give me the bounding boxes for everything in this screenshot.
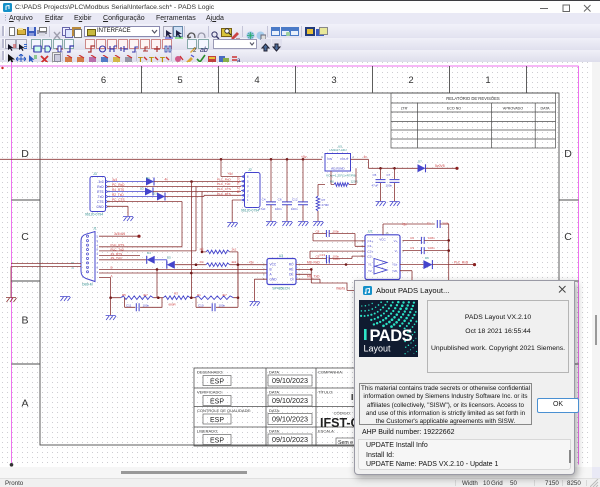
svg-text:C1-: C1- [368, 244, 373, 248]
svg-text:3v3/4v5: 3v3/4v5 [114, 232, 125, 236]
horizontal scrollbar [0, 467, 592, 478]
svg-text:120R: 120R [351, 180, 359, 184]
wire Y2b down [400, 271, 412, 280]
capacitor C6 [275, 159, 292, 221]
svg-text:100n: 100n [428, 246, 435, 250]
wire +5v rail [0, 158, 322, 161]
svg-text:VERIFICADO:: VERIFICADO: [197, 390, 223, 395]
svg-text:C7: C7 [387, 173, 391, 177]
svg-text:CTS: CTS [97, 200, 103, 204]
svg-text:100n: 100n [143, 303, 150, 307]
toolbar row 3 [0, 50, 600, 63]
diode D1 [146, 176, 154, 186]
diode D6 [423, 256, 432, 269]
svg-text:ESP: ESP [210, 378, 224, 385]
svg-text:LM1117-ADJ: LM1117-ADJ [329, 148, 347, 152]
svg-text:C8: C8 [316, 230, 320, 234]
svg-text:R5: R5 [122, 293, 126, 297]
wire DB9 to D4 [99, 259, 147, 261]
svg-text:C5: C5 [373, 173, 377, 177]
svg-text:5v0V5: 5v0V5 [435, 164, 445, 168]
svg-text:DATA: DATA [540, 107, 550, 111]
svg-text:5: 5 [177, 75, 182, 86]
svg-text:96120-0794: 96120-0794 [85, 213, 103, 217]
diode D7 [418, 160, 426, 173]
svg-text:R6: R6 [330, 180, 334, 184]
svg-text:1: 1 [485, 75, 490, 86]
svg-text:C2-: C2- [368, 254, 373, 258]
wire DB9 TxD row [99, 250, 196, 252]
transceiver U3 SP485ECN [263, 254, 300, 290]
capacitor CB flying [310, 251, 365, 262]
svg-text:C: C [21, 231, 29, 243]
svg-text:100n: 100n [428, 236, 435, 240]
svg-text:100n: 100n [275, 207, 282, 211]
resistor R6 [330, 180, 359, 187]
svg-text:PLC_TxD: PLC_TxD [111, 247, 125, 251]
wire R2 ends [201, 251, 238, 298]
svg-text:D7: D7 [418, 160, 422, 164]
wire J2 pin stubs [241, 177, 244, 201]
capacitor C3 [403, 246, 451, 254]
svg-text:DATA:: DATA: [269, 390, 280, 395]
wire DB9 RTS row [99, 246, 182, 248]
svg-text:4: 4 [254, 75, 259, 86]
svg-text:R3: R3 [174, 292, 178, 296]
svg-text:J2: J2 [248, 168, 252, 172]
wire R4 right to +5v [230, 263, 267, 266]
diode D3 [153, 192, 165, 201]
window top edge [0, 0, 600, 2]
version group box [427, 300, 569, 373]
svg-text:DATA:: DATA: [269, 370, 280, 375]
ground R7 [313, 222, 324, 227]
ground bias [106, 316, 117, 321]
svg-text:RxD: RxD [97, 185, 104, 189]
capacitor C5 [372, 168, 386, 201]
svg-text:ESP: ESP [210, 437, 224, 444]
svg-text:D: D [21, 148, 29, 160]
svg-text:C11: C11 [126, 303, 132, 307]
svg-text:ESP: ESP [210, 417, 224, 424]
svg-text:D2: D2 [140, 187, 144, 191]
svg-text:CÓDIGO:: CÓDIGO: [334, 411, 351, 416]
svg-text:+5v: +5v [249, 261, 255, 265]
svg-text:GND: GND [270, 277, 278, 281]
update info box [358, 439, 571, 470]
svg-text:CONTROLE DE QUALIDADE:: CONTROLE DE QUALIDADE: [197, 408, 251, 413]
resistor R3 [163, 292, 190, 307]
svg-text:C4: C4 [262, 197, 266, 201]
svg-text:V+: V+ [394, 239, 398, 243]
svg-text:VCC: VCC [379, 238, 386, 242]
svg-text:Interfa: Interfa [336, 286, 345, 290]
svg-text:4v: 4v [364, 155, 368, 159]
svg-text:A: A [21, 398, 28, 410]
svg-text:LIBERADO:: LIBERADO: [197, 429, 218, 434]
wire B junction down [156, 269, 158, 297]
diode D5 [167, 256, 175, 269]
svg-text:DB9-M: DB9-M [82, 283, 93, 287]
svg-text:Layout: Layout [364, 344, 392, 354]
svg-text:D6: D6 [425, 256, 429, 260]
svg-text:100n: 100n [219, 303, 226, 307]
dialog title [363, 286, 372, 295]
wire ADJ to R6 [331, 171, 334, 185]
ground left [60, 297, 71, 302]
svg-text:VOUT: VOUT [340, 157, 349, 161]
wire C1 to rail [440, 224, 449, 290]
driver U2 [362, 230, 405, 280]
svg-text:D4: D4 [147, 251, 151, 255]
wire +5v to J2 pin6 [221, 159, 241, 176]
svg-text:R4: R4 [200, 260, 204, 264]
svg-text:D5: D5 [167, 256, 171, 260]
connector J2 [241, 168, 260, 213]
svg-text:C13: C13 [319, 253, 325, 257]
svg-text:100n: 100n [333, 230, 340, 234]
connector J1 DB9-M [71, 227, 98, 287]
svg-text:TxD: TxD [98, 195, 105, 199]
svg-text:47uF: 47uF [259, 207, 266, 211]
svg-text:4k7: 4k7 [143, 293, 148, 297]
wire U3 RO to U2 [296, 263, 365, 266]
svg-text:DE: DE [289, 273, 293, 277]
svg-text:GND: GND [96, 205, 104, 209]
svg-text:C3: C3 [410, 246, 414, 250]
title bar [0, 1, 600, 14]
svg-text:PADS: PADS [370, 327, 413, 345]
ground U3 [249, 302, 260, 307]
capacitor C11 [125, 298, 163, 312]
svg-text:100n: 100n [291, 207, 298, 211]
svg-text:C1: C1 [427, 222, 431, 226]
capacitor C2 [403, 236, 451, 244]
wire 4v net D1 to J2 [154, 177, 241, 183]
svg-text:09/10/2023: 09/10/2023 [272, 435, 308, 444]
svg-text:B: B [21, 315, 28, 327]
svg-text:2k2: 2k2 [232, 260, 237, 264]
ground shield [6, 298, 17, 303]
svg-text:47uF: 47uF [372, 184, 379, 188]
svg-text:RTS: RTS [97, 190, 103, 194]
diode D2 [140, 187, 153, 196]
vertical scrollbar [592, 62, 600, 467]
svg-text:D3: D3 [153, 192, 157, 196]
svg-text:VIN: VIN [327, 157, 332, 161]
wire J2 GND down [232, 200, 241, 222]
About dialog [354, 280, 575, 475]
svg-text:D1: D1 [146, 176, 150, 180]
svg-text:DATA:: DATA: [269, 408, 280, 413]
svg-text:MB_RxD: MB_RxD [307, 260, 320, 264]
wire J3 pin3 to D2 [107, 191, 145, 193]
wire net A [99, 272, 267, 275]
capacitor C7 [386, 168, 400, 201]
svg-text:09/10/2023: 09/10/2023 [272, 415, 308, 424]
wire U2 VCC +5v [383, 224, 435, 235]
ground [298, 222, 309, 227]
svg-text:MB_TxD: MB_TxD [307, 275, 320, 279]
wire D5 to R4 [175, 263, 206, 266]
wire DB9 RTS2 row [99, 254, 140, 256]
wire net B [99, 268, 267, 271]
trade secret box [359, 383, 532, 425]
svg-text:Y2b: Y2b [392, 269, 398, 273]
wire U3 DI [296, 279, 354, 290]
wire shield [11, 264, 81, 297]
wire D7 to net 5v0V5 [426, 167, 459, 170]
svg-text:DESENHADO:: DESENHADO: [197, 370, 223, 375]
resistor R7 [316, 196, 329, 211]
svg-text:3: 3 [331, 75, 336, 86]
status bar [0, 478, 600, 487]
svg-text:C6: C6 [278, 197, 282, 201]
svg-text:TÍTULO:: TÍTULO: [318, 390, 333, 395]
wire D2 to R2 column [153, 192, 241, 252]
svg-text:U5: U5 [338, 144, 342, 148]
svg-text:3v3: 3v3 [98, 180, 103, 184]
svg-text:C10: C10 [198, 303, 204, 307]
svg-text:PLC_TxD: PLC_TxD [217, 182, 231, 186]
svg-text:U3: U3 [279, 254, 283, 258]
ground [282, 222, 293, 227]
capacitor C10 [196, 298, 238, 312]
wire J3 pin4 to D3 [107, 196, 157, 198]
svg-text:2: 2 [408, 75, 413, 86]
wire D4 to D5 [155, 260, 167, 265]
svg-text:R7: R7 [322, 198, 326, 202]
svg-text:4v: 4v [165, 177, 169, 181]
svg-text:Sem e: Sem e [338, 440, 353, 446]
resistor R2 [200, 247, 237, 253]
wire D6 to PLC_RxD [432, 263, 476, 266]
capacitor C4 [259, 159, 276, 221]
wire U3 RE DE tie [296, 268, 313, 283]
svg-text:DATA:: DATA: [269, 429, 280, 434]
wire DB9 pin5 3v3 [99, 235, 141, 238]
svg-text:C2: C2 [410, 236, 414, 240]
capacitor C13 [319, 253, 340, 264]
svg-text:ADJ/GND: ADJ/GND [331, 166, 345, 170]
svg-text:Y1b: Y1b [392, 263, 398, 267]
svg-text:+5v: +5v [301, 155, 307, 159]
svg-text:4S_RTS: 4S_RTS [111, 252, 123, 256]
wire DB9 gnd column [99, 278, 111, 298]
resistor R4 [200, 260, 237, 266]
svg-text:COMPANHIA:: COMPANHIA: [318, 370, 343, 375]
wire ADJ branch to R7 [318, 185, 325, 197]
wire J3 pin5 CTS down [107, 202, 182, 247]
connector J3 [85, 172, 110, 217]
capacitor C1 [427, 220, 450, 228]
svg-text:U2: U2 [368, 230, 372, 234]
svg-text:+5v: +5v [228, 172, 234, 176]
wire U3 GND [254, 279, 267, 301]
wire R6 to 4v [349, 168, 356, 184]
svg-text:VCC: VCC [270, 263, 277, 267]
svg-text:C2+: C2+ [368, 249, 374, 253]
wire Y1b to D6 [400, 264, 423, 266]
svg-text:ESP: ESP [210, 398, 224, 405]
svg-text:PLC_TxD3: PLC_TxD3 [237, 177, 241, 193]
wire D3 to J2 [165, 195, 241, 196]
wire J3 pin1 to D1 [107, 181, 146, 183]
capacitor CA flying [313, 230, 365, 247]
wire gnd stub [110, 298, 112, 315]
svg-text:2k2: 2k2 [232, 247, 237, 251]
svg-text:LTR: LTR [401, 107, 408, 111]
svg-text:09/10/2023: 09/10/2023 [272, 396, 308, 405]
svg-text:100n: 100n [333, 255, 340, 259]
svg-text:100n: 100n [386, 184, 393, 188]
svg-text:J3: J3 [93, 172, 97, 176]
svg-text:C9: C9 [316, 255, 320, 259]
svg-text:C12: C12 [292, 197, 298, 201]
svg-text:VOut=1.25*(1+R7/R6): VOut=1.25*(1+R7/R6) [326, 174, 356, 178]
svg-text:Y1: Y1 [368, 263, 372, 267]
svg-text:PLC_RxD: PLC_RxD [217, 177, 232, 181]
toolbar row 2 [0, 38, 600, 51]
svg-text:ECO NO: ECO NO [447, 107, 461, 111]
svg-text:J1: J1 [93, 227, 97, 231]
diode D4 [147, 251, 155, 264]
svg-text:PLC_RTS: PLC_RTS [217, 192, 231, 196]
svg-text:A: A [111, 274, 113, 278]
svg-text:270R: 270R [322, 203, 330, 207]
svg-text:PLC_RxD: PLC_RxD [454, 260, 469, 264]
resistor R1 [195, 293, 233, 300]
svg-text:4k7: 4k7 [222, 293, 227, 297]
svg-text:APROVADO: APROVADO [503, 107, 523, 111]
wire J3 pin2 down [107, 187, 241, 251]
svg-text:6: 6 [101, 75, 106, 86]
toolbar row 1 [0, 24, 600, 39]
wire R7 to ground [317, 211, 319, 221]
svg-text:C: C [564, 231, 572, 243]
svg-text:V-: V- [395, 249, 398, 253]
svg-text:SP485ECN: SP485ECN [272, 286, 290, 290]
svg-text:96120-0794: 96120-0794 [241, 209, 259, 213]
svg-text:DI: DI [290, 277, 293, 281]
svg-text:4S_TxD: 4S_TxD [111, 256, 123, 260]
svg-text:RO: RO [289, 263, 294, 267]
svg-text:C1+: C1+ [368, 239, 374, 243]
svg-text:Y2: Y2 [368, 269, 372, 273]
svg-text:680R: 680R [169, 302, 177, 306]
svg-text:PLC_CTS: PLC_CTS [217, 187, 231, 191]
wire 4v column down [191, 182, 193, 298]
ground J2 [227, 223, 238, 228]
ground [266, 222, 277, 227]
ground [376, 202, 387, 207]
svg-text:09/10/2023: 09/10/2023 [272, 376, 308, 385]
svg-text:B: B [270, 268, 272, 272]
wire VOUT to D7 [351, 159, 418, 169]
ground J3 [123, 217, 134, 222]
svg-text:+5v: +5v [402, 222, 408, 226]
svg-text:RELATÓRIO DE REVISÕES: RELATÓRIO DE REVISÕES [446, 96, 500, 101]
voltage regulator U5 [321, 144, 354, 171]
capacitor C12 [291, 159, 308, 221]
svg-text:RE: RE [289, 268, 293, 272]
resistor R5 [121, 293, 154, 300]
wire bias row [109, 265, 239, 299]
svg-text:D: D [564, 148, 572, 160]
ground [390, 202, 401, 207]
wire J3 GND [107, 206, 128, 216]
menu bar [0, 13, 600, 24]
svg-text:B: B [111, 265, 113, 269]
svg-text:R1: R1 [197, 293, 201, 297]
OK button [537, 398, 579, 413]
